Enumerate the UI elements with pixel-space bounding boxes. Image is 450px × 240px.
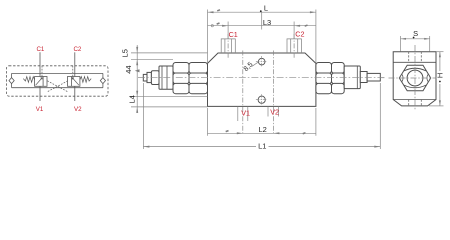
witness line body left edge bottom (207, 108, 209, 136)
pilot cross line from left box to V2 side (47, 81, 68, 92)
chevron 44 (135, 69, 140, 72)
dimension line S (401, 38, 430, 40)
hidden port thread line top left (408, 52, 410, 63)
arrowhead L5 top (136, 47, 138, 53)
hex chamfer arc left (401, 75, 404, 82)
port C2 centerline (293, 22, 295, 39)
witness line body right edge bottom (315, 108, 317, 136)
svg-text:L3: L3 (263, 18, 271, 27)
pilot line dashed above left box (41, 66, 43, 77)
left stack dimension line (136, 45, 138, 113)
check valve left (9, 78, 14, 84)
hole size label 8,5 (243, 56, 268, 105)
counterbalance valve box left (35, 77, 47, 87)
arrowhead H top (439, 52, 441, 58)
end view hex nut (399, 65, 430, 91)
svg-text:V1: V1 (241, 109, 250, 118)
wire top rail (12, 72, 103, 74)
arrowhead L1 left (143, 146, 149, 148)
svg-text:L2: L2 (259, 125, 267, 134)
dimension line L3 (208, 25, 316, 27)
left cartridge locknut (151, 71, 159, 85)
tick mark L (217, 9, 220, 11)
gauge hole 8.5 upper (258, 58, 265, 65)
valve body (208, 53, 316, 106)
hole centerline tick upper (261, 56, 263, 67)
hole horizontal tick lower (256, 99, 268, 101)
pilot cross line from right box to V1 side (47, 81, 68, 92)
end view chamfer edge top (393, 61, 436, 63)
dimension line L (208, 11, 316, 13)
end view vertical centerline (414, 45, 416, 111)
left cartridge spring housing (159, 66, 173, 89)
right cartridge cap (344, 66, 360, 89)
left cartridge hex nut 2 (189, 63, 208, 74)
arrowhead S left (401, 38, 407, 40)
right cartridge stem (367, 73, 380, 81)
port V2 witness lines (267, 106, 269, 116)
left cartridge adjuster tip (143, 74, 147, 81)
port V1 witness lines (237, 106, 239, 121)
tick mark L2 right (302, 132, 305, 135)
port V2 centerline (272, 51, 274, 135)
label L1 (256, 141, 269, 150)
end view body outline (393, 52, 436, 106)
witness line body right edge top (315, 10, 317, 64)
spring left (23, 77, 34, 83)
witness line H top (436, 51, 444, 53)
svg-text:V2: V2 (74, 106, 82, 113)
main view axis centerline (138, 77, 385, 79)
arrowhead L3 right (294, 25, 300, 27)
right cartridge hex nut 1 (316, 63, 332, 74)
svg-text:C2: C2 (73, 46, 81, 53)
svg-text:L5: L5 (120, 49, 129, 57)
svg-text:C1: C1 (229, 30, 238, 39)
label H (436, 71, 445, 84)
wire left branch (11, 73, 13, 87)
tick mark L2 (225, 130, 228, 133)
port C1 boss (221, 39, 235, 53)
arrowhead 44 bottom (136, 91, 138, 97)
svg-text:C2: C2 (295, 30, 304, 39)
extension line hex top left (131, 58, 173, 60)
left cartridge hex nut 1 (173, 63, 189, 74)
check valve right (100, 78, 105, 84)
extension line body top left (131, 52, 208, 54)
arrowhead S right (424, 38, 430, 40)
pilot line dashed above right box (72, 66, 74, 77)
right cartridge hex nut 2 (332, 63, 345, 74)
arrowhead L3 left (222, 25, 228, 27)
svg-text:V2: V2 (270, 107, 279, 116)
left cartridge screw collar (147, 72, 151, 82)
arrowhead L2 left (237, 132, 243, 134)
witness line H bottom (429, 105, 444, 107)
hex chamfer arc bottom (404, 85, 426, 88)
arrowhead L4 bottom (136, 107, 138, 113)
wire bottom rail (12, 87, 103, 89)
port V1 centerline (242, 51, 244, 135)
right cartridge collar (360, 72, 367, 83)
origin circle L3 (211, 25, 213, 27)
hidden port thread line top right (420, 52, 422, 63)
witness line right cartridge tip (379, 83, 381, 149)
tick mark L3 right (304, 24, 307, 26)
end view stem circle (407, 70, 423, 86)
arrowhead L right (310, 11, 316, 13)
hidden port thread line bottom right (420, 100, 422, 106)
extension line hex bottom left (131, 96, 208, 98)
hole centerline tick lower (261, 94, 263, 105)
witness line left cartridge tip (142, 83, 144, 149)
witness line S left (400, 36, 402, 52)
witness line S right (429, 36, 431, 52)
svg-text:V1: V1 (36, 106, 44, 113)
wire line C1-V1 (39, 52, 41, 101)
witness line body left edge top (207, 10, 209, 64)
schematic enclosure dashed box (7, 66, 109, 96)
hole horizontal tick upper (256, 61, 268, 63)
extension line body bottom left (131, 106, 208, 108)
arrowhead L2 right (273, 132, 279, 134)
svg-text:L: L (264, 4, 268, 13)
svg-text:C1: C1 (36, 46, 44, 53)
svg-text:H: H (436, 73, 445, 78)
centre witness line upper (261, 13, 263, 30)
port C1 centerline (227, 22, 229, 39)
end view chamfer edge bottom (393, 99, 436, 101)
hidden port thread line bottom left (408, 100, 410, 106)
arrowhead L1 right (374, 146, 380, 148)
port C2 boss (287, 39, 301, 53)
arrowhead L5 bottom (136, 59, 138, 65)
spring right (80, 77, 91, 83)
wire line C2-V2 (74, 52, 76, 101)
gauge hole lower (258, 96, 265, 103)
hex chamfer arc right (426, 75, 429, 82)
end view horizontal centerline (389, 77, 443, 79)
svg-text:44: 44 (124, 65, 133, 73)
arrowhead H bottom (439, 100, 441, 106)
dimension line L2 (208, 132, 316, 134)
hex chamfer arc top (404, 68, 426, 71)
arrowhead L left (208, 11, 214, 13)
svg-text:L4: L4 (127, 95, 136, 103)
counterbalance valve box right (68, 77, 80, 87)
main view axis centerline overlay (138, 77, 385, 79)
dimension line H (439, 52, 441, 106)
dimension line L1 (143, 146, 380, 148)
tick mark L3 (216, 22, 219, 25)
svg-text:L1: L1 (258, 141, 266, 150)
wire right branch (102, 73, 104, 87)
